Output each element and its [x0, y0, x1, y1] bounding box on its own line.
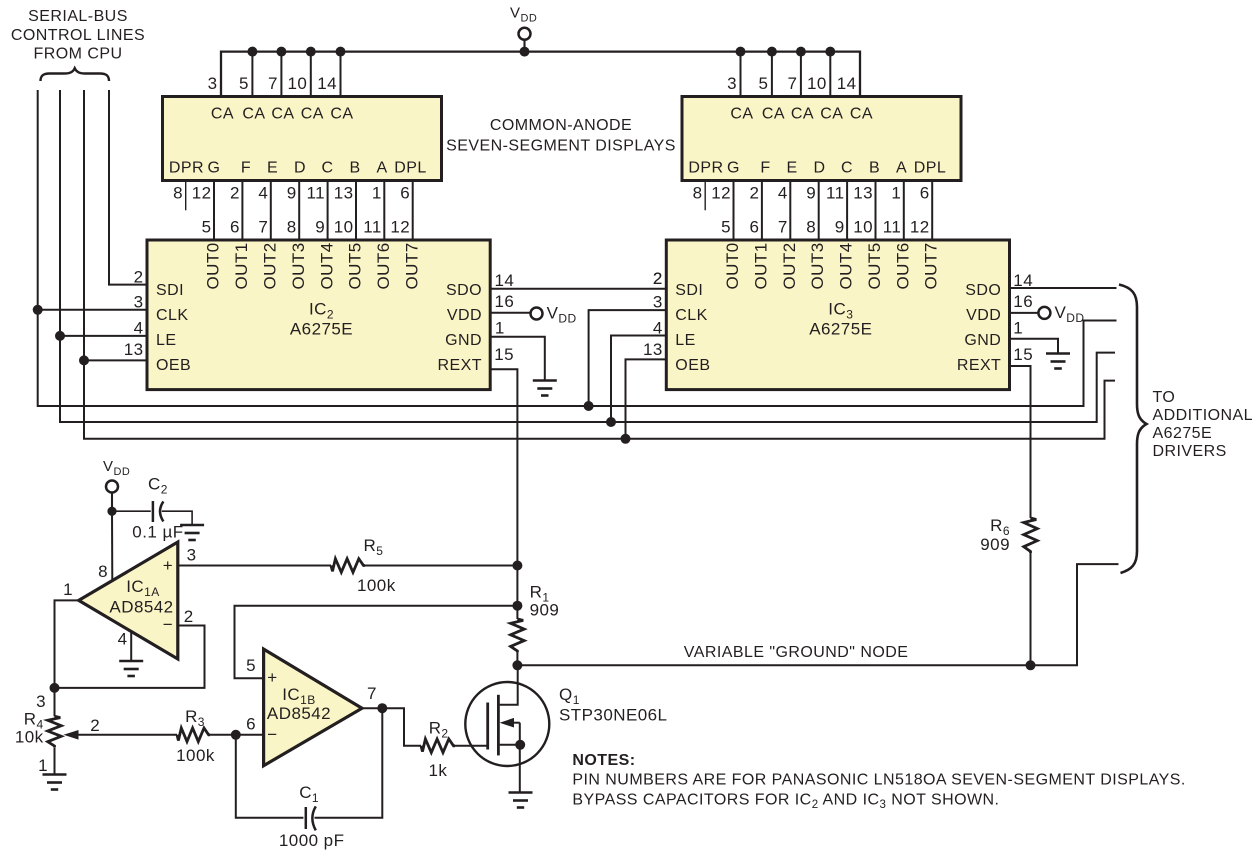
svg-text:CA: CA — [730, 106, 753, 123]
svg-text:G: G — [208, 159, 221, 176]
svg-text:8: 8 — [287, 217, 297, 236]
wire serial line 4 (SDI net from CPU) — [109, 90, 148, 285]
svg-text:PIN NUMBERS ARE FOR PANASONIC: PIN NUMBERS ARE FOR PANASONIC LN518OA SE… — [572, 772, 1185, 789]
svg-text:14: 14 — [495, 271, 515, 290]
svg-text:4: 4 — [653, 318, 663, 337]
svg-text:OUT0: OUT0 — [723, 242, 742, 289]
svg-text:10: 10 — [287, 74, 307, 93]
svg-text:+: + — [267, 668, 277, 687]
svg-text:5: 5 — [202, 217, 212, 236]
wire IC2 REXT pin 15 down to R1 — [490, 369, 517, 619]
svg-text:11: 11 — [883, 217, 902, 236]
svg-text:15: 15 — [494, 345, 514, 364]
svg-text:1: 1 — [63, 580, 73, 599]
svg-text:CONTROL LINES: CONTROL LINES — [11, 27, 145, 44]
label: SERIAL-BUS CONTROL LINES FROM CPU — [11, 8, 145, 63]
svg-text:CA: CA — [271, 106, 294, 123]
svg-text:SDI: SDI — [156, 282, 184, 299]
svg-text:11: 11 — [826, 183, 845, 202]
pin numbers display anodes left (3 5 7 10 14) — [208, 74, 337, 93]
svg-text:COMMON-ANODE: COMMON-ANODE — [490, 117, 632, 134]
svg-text:GND: GND — [445, 332, 482, 349]
ground Q1 source — [509, 791, 533, 794]
pin numbers IC3 left (2 3 4 13) — [643, 269, 663, 359]
wire IC2 GND pin 1 — [490, 337, 545, 381]
svg-text:10k: 10k — [15, 728, 44, 747]
node R5 junction on REXT line — [512, 561, 522, 571]
svg-text:+: + — [163, 556, 173, 575]
svg-text:3: 3 — [727, 74, 737, 93]
wire display segment pins to IC outputs (left) — [214, 181, 413, 241]
svg-text:13: 13 — [853, 183, 873, 202]
svg-text:OUT5: OUT5 — [346, 242, 365, 289]
svg-text:SDO: SDO — [965, 282, 1001, 299]
svg-text:OUT1: OUT1 — [232, 242, 251, 289]
wire IC3 GND pin 1 — [1010, 339, 1059, 354]
wire LE tap to IC2 — [60, 335, 148, 337]
svg-text:REXT: REXT — [438, 357, 482, 374]
wire display anode pins (left display) — [252, 52, 340, 96]
svg-text:7: 7 — [268, 74, 278, 93]
svg-text:3: 3 — [653, 293, 663, 312]
label: TO ADDITIONAL A6275E DRIVERS — [1153, 389, 1254, 460]
svg-text:FROM CPU: FROM CPU — [34, 46, 123, 63]
wire IC1A output pin 1 to R4 top — [55, 600, 79, 688]
wire R6 bottom to variable ground node — [1030, 553, 1032, 665]
svg-text:2: 2 — [90, 716, 100, 735]
pin numbers display anodes right (3 5 7 10 14) — [727, 74, 856, 93]
svg-text:5: 5 — [721, 217, 731, 236]
svg-text:1: 1 — [372, 183, 382, 202]
svg-text:CA: CA — [301, 106, 324, 123]
wire VDD rail to display common anodes — [221, 52, 860, 96]
svg-text:16: 16 — [1013, 292, 1033, 311]
svg-text:A6275E: A6275E — [1153, 425, 1213, 442]
svg-text:A6275E: A6275E — [809, 320, 872, 339]
svg-text:10: 10 — [807, 74, 827, 93]
op-amp IC1B AD8542 — [264, 649, 362, 766]
power VDD terminal (IC2) — [531, 308, 543, 320]
wire CLK tap to IC2 — [38, 309, 148, 311]
svg-text:2: 2 — [749, 183, 759, 202]
svg-text:BYPASS CAPACITORS FOR IC2 AND: BYPASS CAPACITORS FOR IC2 AND IC3 NOT SH… — [572, 792, 999, 812]
svg-text:6: 6 — [246, 715, 256, 734]
node VDD/C2 junction — [107, 507, 116, 516]
svg-text:3: 3 — [134, 293, 144, 312]
svg-text:909: 909 — [530, 601, 560, 620]
wire C2 to ground — [162, 511, 192, 525]
svg-text:OUT0: OUT0 — [204, 242, 223, 289]
wire serial line 3 (OEB net from CPU) — [84, 90, 1115, 439]
svg-text:SEVEN-SEGMENT DISPLAYS: SEVEN-SEGMENT DISPLAYS — [446, 137, 676, 154]
svg-text:OUT6: OUT6 — [893, 242, 912, 289]
svg-text:2: 2 — [134, 267, 144, 286]
svg-text:SDO: SDO — [446, 282, 482, 299]
svg-text:909: 909 — [980, 535, 1010, 554]
svg-text:−: − — [163, 615, 173, 634]
svg-text:10: 10 — [334, 217, 354, 236]
node LE junction at line 2 — [55, 331, 65, 341]
svg-text:B: B — [869, 159, 880, 176]
svg-text:D: D — [294, 159, 306, 176]
wire IC1A output to R4 top terminal — [54, 688, 56, 716]
node IC1B pin 6 junction (C1) — [231, 730, 241, 740]
pin DPR stub (right display pin 8, unconnected) — [704, 181, 706, 210]
svg-text:CA: CA — [850, 106, 873, 123]
wiper arrow R4 pin 2 — [76, 734, 177, 736]
svg-text:VDD: VDD — [966, 307, 1001, 324]
wire OEB riser to IC3 — [626, 359, 668, 438]
svg-text:DPR: DPR — [688, 159, 723, 176]
svg-text:12: 12 — [910, 217, 930, 236]
svg-text:OUT6: OUT6 — [374, 242, 393, 289]
svg-text:OUT5: OUT5 — [865, 242, 884, 289]
pin DPR stub (left display pin 8, unconnected) — [185, 181, 187, 210]
wire IC3 REXT pin 15 down to R6 — [1010, 366, 1031, 518]
svg-text:LE: LE — [675, 332, 695, 349]
svg-text:14: 14 — [837, 74, 857, 93]
resistor R6 — [1024, 518, 1038, 553]
svg-text:6: 6 — [230, 217, 240, 236]
ground IC2 — [533, 379, 557, 382]
node anode rail junctions left — [247, 47, 345, 57]
label: COMMON-ANODE SEVEN-SEGMENT DISPLAYS — [446, 117, 676, 154]
seven-segment display (left) — [163, 97, 442, 181]
svg-text:STP30NE06L: STP30NE06L — [559, 706, 667, 725]
svg-text:OUT2: OUT2 — [261, 242, 280, 289]
svg-text:2: 2 — [230, 183, 240, 202]
svg-text:11: 11 — [363, 217, 382, 236]
resistor R2 — [421, 739, 455, 753]
wire IC2 VDD pin 16 — [490, 312, 531, 314]
driver IC2 A6275E — [147, 240, 490, 390]
svg-text:11: 11 — [307, 183, 326, 202]
svg-text:CA: CA — [211, 106, 234, 123]
svg-text:LE: LE — [156, 332, 176, 349]
svg-text:10: 10 — [853, 217, 873, 236]
svg-text:DPR: DPR — [169, 159, 204, 176]
svg-text:OUT7: OUT7 — [402, 242, 421, 289]
svg-text:6: 6 — [749, 217, 759, 236]
svg-text:CLK: CLK — [675, 307, 707, 324]
svg-text:3: 3 — [36, 692, 46, 711]
node CLK junction at line 1 — [33, 305, 43, 315]
svg-text:C: C — [841, 159, 853, 176]
svg-text:SDI: SDI — [675, 282, 703, 299]
svg-text:SERIAL-BUS: SERIAL-BUS — [28, 8, 128, 25]
svg-text:14: 14 — [1013, 271, 1033, 290]
wire serial line 1 (CLK net from CPU) — [38, 90, 1117, 406]
wire R1 bottom to variable ground node — [516, 652, 518, 665]
svg-text:13: 13 — [124, 340, 144, 359]
svg-text:12: 12 — [192, 183, 212, 202]
svg-text:13: 13 — [643, 340, 663, 359]
node IC1A output junction — [50, 683, 60, 693]
svg-text:4: 4 — [134, 318, 144, 337]
svg-text:8: 8 — [98, 562, 108, 581]
ground R4 — [43, 773, 67, 776]
svg-text:CA: CA — [820, 106, 843, 123]
ground IC1A — [119, 660, 143, 663]
svg-text:NOTES:: NOTES: — [572, 752, 635, 769]
svg-text:D: D — [813, 159, 825, 176]
svg-text:AD8542: AD8542 — [109, 598, 173, 617]
svg-text:VDD: VDD — [447, 307, 482, 324]
pin numbers IC2 left (2 3 4 13) — [124, 267, 144, 359]
svg-text:OUT4: OUT4 — [317, 242, 336, 289]
svg-text:2: 2 — [184, 607, 194, 626]
svg-text:7: 7 — [778, 217, 788, 236]
svg-text:OUT1: OUT1 — [751, 242, 770, 289]
pin numbers display segments (left: 8 12 2 4 9 11 13 1 6) — [173, 183, 410, 202]
label: NOTES — [572, 752, 1185, 811]
svg-text:DRIVERS: DRIVERS — [1153, 443, 1227, 460]
wire variable ground node — [517, 564, 1118, 665]
svg-text:100k: 100k — [357, 576, 396, 595]
capacitor C1 — [305, 807, 308, 829]
svg-text:AD8542: AD8542 — [267, 704, 331, 723]
wire LE riser to IC3 — [611, 336, 667, 423]
seven-segment display (right) — [682, 97, 961, 181]
svg-text:6: 6 — [400, 183, 410, 202]
capacitor C2 — [152, 501, 155, 522]
svg-text:OUT3: OUT3 — [808, 242, 827, 289]
svg-text:3: 3 — [208, 74, 218, 93]
svg-text:OUT3: OUT3 — [289, 242, 308, 289]
svg-text:E: E — [267, 159, 278, 176]
svg-text:1: 1 — [495, 318, 505, 337]
svg-text:5: 5 — [239, 74, 249, 93]
wire IC3 VDD pin 16 — [1010, 312, 1039, 314]
svg-text:−: − — [267, 725, 277, 744]
svg-text:12: 12 — [390, 217, 410, 236]
svg-text:100k: 100k — [176, 746, 215, 765]
svg-text:F: F — [760, 159, 770, 176]
node IC1B output junction (C1) — [377, 703, 387, 713]
svg-text:4: 4 — [258, 183, 268, 202]
pin numbers IC outputs (right: 5 6 7 8 9 10 11 12) — [721, 217, 930, 236]
svg-text:A: A — [376, 159, 387, 176]
svg-text:ADDITIONAL: ADDITIONAL — [1153, 407, 1254, 424]
svg-text:5: 5 — [758, 74, 768, 93]
svg-text:OEB: OEB — [675, 357, 710, 374]
wire R2 to Q1 gate — [455, 745, 487, 747]
svg-text:OEB: OEB — [156, 357, 191, 374]
svg-text:CA: CA — [330, 106, 353, 123]
svg-text:TO: TO — [1153, 389, 1176, 406]
pin numbers IC outputs (left: 5 6 7 8 9 10 11 12) — [202, 217, 411, 236]
node R1 top junction (feedback to IC1B+) — [512, 601, 522, 611]
svg-text:7: 7 — [367, 684, 377, 703]
svg-text:OUT4: OUT4 — [837, 242, 856, 289]
wire R4 bottom to ground — [54, 747, 56, 774]
wire R3 to IC1B pin 6 — [210, 734, 264, 736]
node variable ground node junction at Q1 drain — [512, 660, 522, 670]
wire OEB tap to IC2 — [84, 359, 148, 361]
power VDD terminal (top) — [523, 40, 525, 52]
wire R1 top to IC1B pin 5 (+) — [235, 606, 518, 679]
svg-text:14: 14 — [317, 74, 337, 93]
resistor R5 — [331, 559, 365, 573]
svg-text:9: 9 — [315, 217, 325, 236]
wire serial line 2 (LE net from CPU) — [60, 90, 1115, 422]
svg-text:DPL: DPL — [914, 159, 946, 176]
svg-text:G: G — [727, 159, 740, 176]
wire C1 feedback loop — [236, 735, 304, 818]
node R6 bottom junction — [1026, 660, 1036, 670]
svg-text:3: 3 — [187, 546, 197, 565]
pin numbers display segments (right: 8 12 2 4 9 11 13 1 6) — [693, 183, 930, 202]
svg-text:CA: CA — [242, 106, 265, 123]
svg-text:A6275E: A6275E — [290, 320, 353, 339]
svg-text:A: A — [896, 159, 907, 176]
svg-text:9: 9 — [806, 183, 816, 202]
node OEB riser junction — [621, 434, 631, 444]
wire CLK riser to IC3 — [589, 310, 667, 406]
svg-text:1: 1 — [891, 183, 901, 202]
node anode rail junctions right — [736, 47, 836, 57]
power VDD terminal (IC1A) — [106, 481, 118, 493]
wire display anode pins (right display) — [741, 52, 831, 96]
svg-text:6: 6 — [920, 183, 930, 202]
svg-text:DPL: DPL — [394, 159, 426, 176]
wire IC1A pin 3 to R5 to REXT node — [178, 565, 331, 567]
svg-text:1: 1 — [1013, 318, 1023, 337]
wire IC1A pin 2 feedback loop — [55, 626, 205, 688]
svg-text:1: 1 — [38, 756, 48, 775]
svg-text:8: 8 — [173, 183, 183, 202]
op-amp IC1A AD8542 — [79, 542, 178, 659]
wire IC1A pin 4 to ground — [130, 632, 132, 661]
wire IC1B output to R2 — [362, 708, 421, 746]
wire display segment pins to IC outputs (right) — [734, 181, 933, 241]
transistor Q1 STP30NE06L (N-channel MOSFET) — [465, 665, 549, 792]
svg-text:1k: 1k — [429, 761, 448, 780]
svg-text:13: 13 — [334, 183, 354, 202]
wire VDD to IC1A pin 8 and C2 — [111, 493, 113, 512]
ground C2 — [180, 524, 204, 527]
svg-text:12: 12 — [711, 183, 731, 202]
svg-text:8: 8 — [806, 217, 816, 236]
wire IC3 SDO to additional drivers — [1010, 287, 1117, 289]
wire IC2 SDO to IC3 SDI — [490, 288, 667, 290]
svg-text:GND: GND — [964, 332, 1001, 349]
brace to additional A6275E drivers — [1119, 285, 1147, 574]
brace over serial-bus lines — [41, 68, 110, 81]
svg-text:OUT7: OUT7 — [922, 242, 941, 289]
svg-text:C: C — [321, 159, 333, 176]
svg-text:2: 2 — [653, 269, 663, 288]
resistor R1 — [511, 619, 525, 652]
svg-text:CA: CA — [762, 106, 785, 123]
svg-text:5: 5 — [246, 656, 256, 675]
svg-text:15: 15 — [1013, 345, 1033, 364]
svg-text:7: 7 — [787, 74, 797, 93]
power VDD terminal (IC3) — [1038, 307, 1050, 319]
node CLK riser junction — [584, 401, 594, 411]
svg-text:16: 16 — [495, 292, 515, 311]
driver IC3 A6275E — [666, 240, 1009, 390]
svg-text:4: 4 — [778, 183, 788, 202]
svg-text:E: E — [786, 159, 797, 176]
svg-text:REXT: REXT — [957, 357, 1001, 374]
svg-text:9: 9 — [287, 183, 297, 202]
svg-text:B: B — [349, 159, 360, 176]
svg-text:CA: CA — [791, 106, 814, 123]
resistor R3 — [177, 728, 210, 742]
svg-text:4: 4 — [118, 630, 128, 649]
svg-text:0.1 µF: 0.1 µF — [132, 523, 183, 542]
svg-text:F: F — [241, 159, 251, 176]
ground IC3 — [1046, 352, 1070, 355]
svg-text:CLK: CLK — [156, 307, 188, 324]
potentiometer R4 10k — [15, 692, 61, 775]
node VDD rail junction — [520, 47, 530, 57]
svg-text:8: 8 — [693, 183, 703, 202]
svg-text:7: 7 — [258, 217, 268, 236]
svg-text:VARIABLE "GROUND" NODE: VARIABLE "GROUND" NODE — [684, 644, 909, 661]
node OEB junction at line 3 — [79, 355, 89, 365]
svg-text:9: 9 — [835, 217, 845, 236]
node LE riser junction — [606, 417, 616, 427]
svg-text:OUT2: OUT2 — [780, 242, 799, 289]
svg-text:1000 pF: 1000 pF — [279, 831, 345, 850]
